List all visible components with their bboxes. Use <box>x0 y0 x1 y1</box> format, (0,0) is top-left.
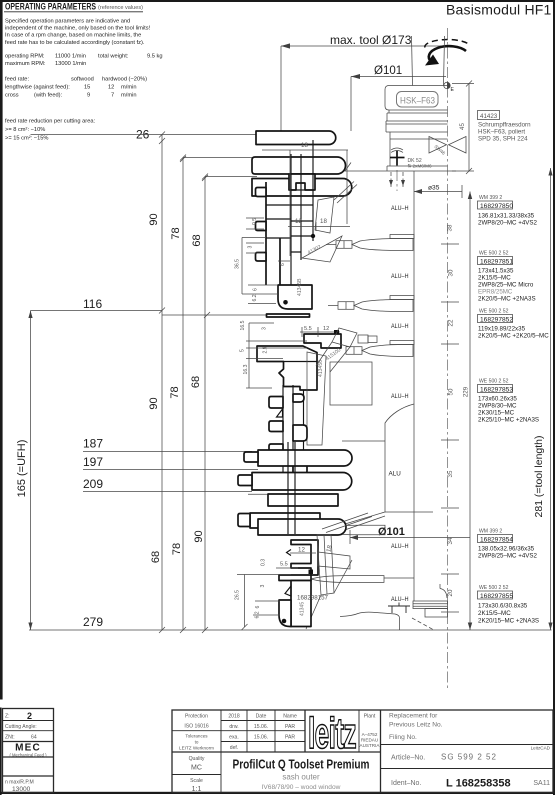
svg-text:ALU–H: ALU–H <box>391 323 409 330</box>
svg-text:(with feed):: (with feed): <box>34 93 63 99</box>
svg-text:ZNt:: ZNt: <box>5 735 15 741</box>
svg-text:⇅ 2xM6/M6: ⇅ 2xM6/M6 <box>408 164 432 169</box>
c2 comb <box>283 385 304 478</box>
svg-text:ALU: ALU <box>389 471 402 478</box>
svg-text:Tolerances: Tolerances <box>185 734 208 739</box>
svg-text:ø35: ø35 <box>428 185 440 192</box>
svg-text:12: 12 <box>298 547 305 554</box>
svg-text:6: 6 <box>280 263 286 266</box>
svg-text:Article–No.: Article–No. <box>391 755 425 762</box>
svg-text:2K15/5–MC: 2K15/5–MC <box>478 610 511 617</box>
svg-text:5: 5 <box>240 349 246 352</box>
svg-text:Date: Date <box>256 714 267 720</box>
block 168297851 <box>478 251 536 303</box>
svg-text:feed rate reduction per cuttin: feed rate reduction per cutting area: <box>5 119 96 125</box>
profile bar B3 <box>252 179 352 197</box>
svg-text:2: 2 <box>27 711 32 721</box>
profile bar B1 <box>256 131 336 145</box>
c2 main piece <box>257 346 317 390</box>
page border right <box>553 0 555 795</box>
svg-text:WE 500 2 52: WE 500 2 52 <box>479 585 509 591</box>
tab under bar B2 <box>289 174 315 190</box>
svg-text:A–4752: A–4752 <box>362 732 378 737</box>
svg-text:13000 1/min: 13000 1/min <box>55 61 86 67</box>
svg-text:Specified operation parameters: Specified operation parameters are indic… <box>5 18 130 24</box>
sash spine ladder <box>291 140 313 285</box>
svg-text:41423: 41423 <box>480 113 498 120</box>
nut arc <box>440 589 447 599</box>
svg-text:281 (=tool length): 281 (=tool length) <box>533 435 545 517</box>
svg-text:Scale: Scale <box>190 778 203 784</box>
svg-text:LeitzCAD: LeitzCAD <box>531 746 551 751</box>
281 tool length dim line <box>550 168 552 630</box>
svg-text:6.2: 6.2 <box>252 294 258 301</box>
max tool dim line <box>281 45 446 47</box>
blade station 2 <box>352 239 413 251</box>
svg-text:2K20/5–MC +2NA3S: 2K20/5–MC +2NA3S <box>478 296 536 303</box>
svg-text:26.5: 26.5 <box>235 590 241 600</box>
svg-text:45: 45 <box>459 123 466 130</box>
c3 bar 5 <box>250 513 320 528</box>
svg-text:16.5: 16.5 <box>240 320 246 330</box>
holder discs <box>388 110 390 113</box>
svg-text:2K30/15–MC: 2K30/15–MC <box>478 410 515 417</box>
svg-text:Name: Name <box>283 714 297 720</box>
c4 knife slant lines <box>306 560 352 629</box>
svg-text:feed rate has to be calculated: feed rate has to be calculated according… <box>5 40 145 46</box>
left vertical dim line a <box>161 135 163 631</box>
c2 top edge line <box>162 314 267 316</box>
svg-text:78: 78 <box>170 227 182 239</box>
svg-text:Cutting Angle:: Cutting Angle: <box>5 724 37 730</box>
block 168297855 <box>478 585 540 625</box>
page border top <box>0 0 555 2</box>
blade station 3 <box>354 300 413 312</box>
svg-text:Filing No.: Filing No. <box>389 734 417 741</box>
svg-text:90: 90 <box>193 530 205 542</box>
datum E <box>444 82 450 88</box>
svg-text:3: 3 <box>262 327 268 330</box>
svg-text:20: 20 <box>447 589 454 596</box>
svg-text:Schrumpffraesdorn: Schrumpffraesdorn <box>478 122 531 129</box>
svg-text:Protection: Protection <box>185 714 208 720</box>
svg-text:Plant: Plant <box>364 714 376 720</box>
flange left step <box>345 163 351 172</box>
svg-text:2K20/5–MC +2K20/5–MC: 2K20/5–MC +2K20/5–MC <box>478 333 549 340</box>
svg-text:HSK–F63: HSK–F63 <box>400 96 435 106</box>
holder bottom flange line <box>340 170 456 172</box>
bore line <box>413 171 415 601</box>
svg-text:drw.: drw. <box>229 724 238 730</box>
svg-text:ALU–H: ALU–H <box>391 543 409 550</box>
svg-text:78: 78 <box>171 543 183 555</box>
knife slant lines cluster1 <box>334 182 357 204</box>
svg-text:3: 3 <box>248 246 254 249</box>
svg-text:68: 68 <box>150 551 162 563</box>
svg-text:>= 8 cm²: −10%: >= 8 cm²: −10% <box>5 127 45 133</box>
svg-text:IV68/78/90 – wood window: IV68/78/90 – wood window <box>262 784 341 791</box>
svg-text:Previous Leitz No.: Previous Leitz No. <box>389 722 443 729</box>
c4 tall knife quad <box>317 535 334 595</box>
svg-text:41345B: 41345B <box>297 278 303 296</box>
svg-text:total weight:: total weight: <box>98 54 129 60</box>
svg-text:16.3: 16.3 <box>243 364 249 374</box>
sash foot <box>278 285 312 309</box>
svg-text:168297854: 168297854 <box>480 537 513 544</box>
svg-text:HSK–F63, poliert: HSK–F63, poliert <box>478 129 525 136</box>
c4 C-piece <box>291 540 318 575</box>
svg-text:168298157: 168298157 <box>297 595 329 602</box>
svg-text:ALU–H: ALU–H <box>391 393 409 400</box>
c4 holder plate <box>318 552 350 569</box>
svg-text:WM 399 2: WM 399 2 <box>479 529 502 535</box>
svg-text:90: 90 <box>148 213 160 225</box>
svg-text:197: 197 <box>83 455 103 469</box>
svg-text:168297850: 168297850 <box>480 203 513 210</box>
svg-text:def.: def. <box>230 745 239 751</box>
svg-text:2WP8/25–MC +4VS2: 2WP8/25–MC +4VS2 <box>478 553 538 560</box>
HSK-F63 label box <box>397 92 439 108</box>
block 168297854 <box>478 529 538 560</box>
tool holder rotation arrow <box>429 46 466 62</box>
c2 knife quad <box>332 328 357 347</box>
svg-text:feed rate:: feed rate: <box>5 77 29 83</box>
sash left edge <box>265 182 267 285</box>
svg-text:OPERATING PARAMETERS: OPERATING PARAMETERS <box>5 2 96 12</box>
svg-text:13000: 13000 <box>12 786 31 793</box>
svg-text:5.5: 5.5 <box>304 326 312 332</box>
svg-text:3: 3 <box>260 585 266 588</box>
svg-text:hardwood (−20%): hardwood (−20%) <box>102 77 147 83</box>
clamp bolt <box>396 151 398 166</box>
45 dim right of holder <box>452 83 474 85</box>
svg-text:41345: 41345 <box>300 602 306 616</box>
left vertical dim line b <box>182 158 184 631</box>
svg-text:64: 64 <box>31 735 37 741</box>
svg-text:operating RPM:: operating RPM: <box>5 54 45 60</box>
block 41423 chuck <box>478 111 532 143</box>
SW46 wrench bowtie <box>429 137 447 154</box>
c2 knife plate <box>307 352 326 445</box>
svg-text:22: 22 <box>448 319 455 326</box>
knife slants above blade5 <box>322 513 372 533</box>
svg-text:12: 12 <box>108 85 114 91</box>
c3 bar 4 <box>268 494 338 506</box>
svg-text:WM 399 2: WM 399 2 <box>479 195 502 201</box>
svg-text:Ident–No.: Ident–No. <box>391 780 421 787</box>
svg-text:Ø101: Ø101 <box>374 65 402 77</box>
svg-text:ALU–H: ALU–H <box>391 205 409 212</box>
body bottom hump outline <box>340 612 400 630</box>
svg-text:136.81x31.33/38x35: 136.81x31.33/38x35 <box>478 213 535 220</box>
svg-text:2K20/15–MC +2NA3S: 2K20/15–MC +2NA3S <box>478 618 539 625</box>
blade station 4 <box>362 345 413 357</box>
svg-text:2WP8/20–MC +4VS2: 2WP8/20–MC +4VS2 <box>478 220 538 227</box>
svg-text:173x30.6/30.8x35: 173x30.6/30.8x35 <box>478 603 528 610</box>
svg-text:independent of the machine, on: independent of the machine, only based o… <box>5 26 151 32</box>
c2 knife holder plate <box>330 362 372 405</box>
c4 lower block <box>291 581 311 627</box>
c4 bar piece <box>279 575 311 581</box>
drawing bottom line <box>29 629 552 631</box>
dim 165 UFH <box>30 311 32 631</box>
svg-text:WE 500 2 52: WE 500 2 52 <box>479 251 509 257</box>
title block left column frame <box>3 709 54 793</box>
svg-text:ProfilCut Q Toolset Premium: ProfilCut Q Toolset Premium <box>233 758 370 772</box>
svg-text:PAR: PAR <box>285 724 295 730</box>
svg-text:2WP8/30–MC: 2WP8/30–MC <box>478 403 517 410</box>
svg-text:( Mechanical Feed ): ( Mechanical Feed ) <box>9 752 47 757</box>
svg-text:>= 15 cm²: −15%: >= 15 cm²: −15% <box>5 136 48 142</box>
svg-text:(reference values): (reference values) <box>98 5 143 11</box>
svg-text:PAR: PAR <box>285 735 295 741</box>
left vertical dim line c <box>204 177 206 631</box>
svg-text:6: 6 <box>255 606 261 609</box>
svg-text:9.5 kg: 9.5 kg <box>147 54 163 60</box>
svg-text:m/min: m/min <box>121 85 136 91</box>
knife quad cluster1 <box>315 197 334 233</box>
svg-text:168297852: 168297852 <box>480 317 513 324</box>
svg-text:maximum RPM:: maximum RPM: <box>5 61 46 67</box>
c3 bar 3 <box>252 473 352 491</box>
c3 bar 2 <box>258 450 352 466</box>
svg-text:116: 116 <box>83 297 102 311</box>
svg-text:m/min: m/min <box>121 93 136 99</box>
svg-text:EPR8/25MC: EPR8/25MC <box>478 289 513 296</box>
svg-text:L 168258358: L 168258358 <box>446 778 511 790</box>
blade station 5 <box>322 525 385 535</box>
svg-text:2018: 2018 <box>228 714 239 720</box>
ALU-H spacer labels <box>389 205 409 603</box>
svg-text:Z:: Z: <box>5 714 10 720</box>
c3 bar 6 <box>258 519 346 535</box>
c4 foot <box>279 600 291 627</box>
svg-text:SPD 35, SPH 224: SPD 35, SPH 224 <box>478 136 528 143</box>
svg-text:279: 279 <box>83 615 103 629</box>
holder body HSK <box>385 86 448 111</box>
svg-text:2K25/10–MC +2NA3S: 2K25/10–MC +2NA3S <box>478 417 539 424</box>
tool body outline lower <box>330 404 414 529</box>
svg-text:SA11: SA11 <box>533 780 550 787</box>
svg-text:E: E <box>451 87 455 93</box>
page border left <box>0 0 3 700</box>
segment dims on centerline <box>441 244 459 612</box>
svg-text:0.5: 0.5 <box>252 218 258 225</box>
svg-text:2K15/5–MC: 2K15/5–MC <box>478 275 511 282</box>
229 dim line <box>469 192 471 631</box>
svg-text:6: 6 <box>253 288 259 291</box>
svg-text:ALU–H: ALU–H <box>391 273 409 280</box>
svg-text:18: 18 <box>320 218 327 225</box>
svg-text:MC: MC <box>191 765 202 772</box>
svg-text:AUSTRIA: AUSTRIA <box>360 743 381 748</box>
hidden bolt dashed <box>390 172 392 187</box>
svg-text:lengthwise (against feed):: lengthwise (against feed): <box>5 85 70 91</box>
svg-text:RIEDAU: RIEDAU <box>361 738 378 743</box>
svg-text:15: 15 <box>84 85 90 91</box>
svg-text:to: to <box>195 740 199 745</box>
svg-text:18: 18 <box>301 142 308 149</box>
svg-text:WE 500 2 52: WE 500 2 52 <box>479 379 509 385</box>
operating parameters paragraph 1 <box>5 18 163 141</box>
svg-text:15.06.: 15.06. <box>254 724 268 730</box>
block 168297850 <box>478 195 538 227</box>
svg-text:36.5: 36.5 <box>235 259 241 269</box>
svg-text:Ø101: Ø101 <box>378 526 405 538</box>
svg-text:138.05x32.96/36x35: 138.05x32.96/36x35 <box>478 546 535 553</box>
svg-text:9: 9 <box>87 93 90 99</box>
svg-text:12: 12 <box>295 218 302 225</box>
svg-text:68: 68 <box>191 234 203 246</box>
svg-text:168297851: 168297851 <box>480 259 513 266</box>
blade station 6 <box>311 576 384 583</box>
svg-text:1:1: 1:1 <box>192 786 202 793</box>
svg-text:187: 187 <box>83 437 103 451</box>
svg-text:78: 78 <box>169 386 181 398</box>
svg-text:softwood: softwood <box>71 77 94 83</box>
svg-text:sash outer: sash outer <box>282 773 320 782</box>
svg-text:173x41.5x35: 173x41.5x35 <box>478 268 514 275</box>
profile bar B2 <box>252 157 346 174</box>
block 168297853 <box>478 379 540 424</box>
svg-text:SG 599 2 52: SG 599 2 52 <box>441 753 497 762</box>
svg-text:max. tool Ø173: max. tool Ø173 <box>330 33 412 47</box>
svg-text:7: 7 <box>111 93 114 99</box>
c3 spine <box>288 442 295 534</box>
svg-text:2WP8/25–MC Micro: 2WP8/25–MC Micro <box>478 282 534 289</box>
svg-text:30: 30 <box>448 269 455 276</box>
svg-text:11000 1/min: 11000 1/min <box>55 54 86 60</box>
svg-text:Quality: Quality <box>189 756 205 762</box>
svg-text:34: 34 <box>447 537 454 544</box>
ALU-H stand symbol left <box>388 603 410 614</box>
svg-text:5.5: 5.5 <box>280 562 288 568</box>
page border bottom <box>0 792 555 794</box>
title block main frame <box>172 710 553 793</box>
centerline of tool <box>447 28 449 690</box>
svg-text:exa.: exa. <box>229 735 239 741</box>
svg-text:209: 209 <box>83 477 103 491</box>
svg-text:15.06.: 15.06. <box>254 735 268 741</box>
svg-text:168297855: 168297855 <box>480 593 513 600</box>
svg-text:WE 500 2 52: WE 500 2 52 <box>479 309 509 315</box>
dia101 dim line <box>351 76 446 78</box>
svg-text:173x60.26x35: 173x60.26x35 <box>478 396 517 403</box>
svg-text:2.9: 2.9 <box>263 346 269 353</box>
holder shank neck <box>412 36 413 86</box>
svg-text:229: 229 <box>463 386 470 397</box>
svg-text:50: 50 <box>448 388 455 395</box>
svg-text:Basismodul HF1: Basismodul HF1 <box>446 2 552 18</box>
svg-text:165 (=UFH): 165 (=UFH) <box>16 440 28 498</box>
svg-text:ISO 16016: ISO 16016 <box>184 724 209 730</box>
svg-text:cross: cross <box>5 93 19 99</box>
svg-text:ALU–H: ALU–H <box>391 596 409 603</box>
svg-text:leitz: leitz <box>308 709 356 758</box>
clamping nut bottom <box>413 601 448 609</box>
svg-text:0.3: 0.3 <box>261 559 267 566</box>
svg-text:168297853: 168297853 <box>480 387 513 394</box>
dim ticks bottom <box>159 138 208 633</box>
svg-text:n max/R.P.M: n max/R.P.M <box>5 780 34 786</box>
svg-text:In case of a rpm change, based: In case of a rpm change, based on machin… <box>5 33 141 39</box>
svg-text:LEITZ Werknorm: LEITZ Werknorm <box>179 746 214 751</box>
svg-text:38: 38 <box>447 224 454 231</box>
svg-text:90: 90 <box>148 397 160 409</box>
svg-text:Replacement for: Replacement for <box>389 713 438 720</box>
svg-text:119x19.89/22x35: 119x19.89/22x35 <box>478 326 526 333</box>
block 168297852 <box>478 309 550 340</box>
svg-text:35: 35 <box>447 470 454 477</box>
svg-text:413456: 413456 <box>318 360 324 377</box>
svg-text:12: 12 <box>323 326 329 332</box>
svg-text:68: 68 <box>190 376 202 388</box>
c2 stepped block <box>304 334 341 348</box>
